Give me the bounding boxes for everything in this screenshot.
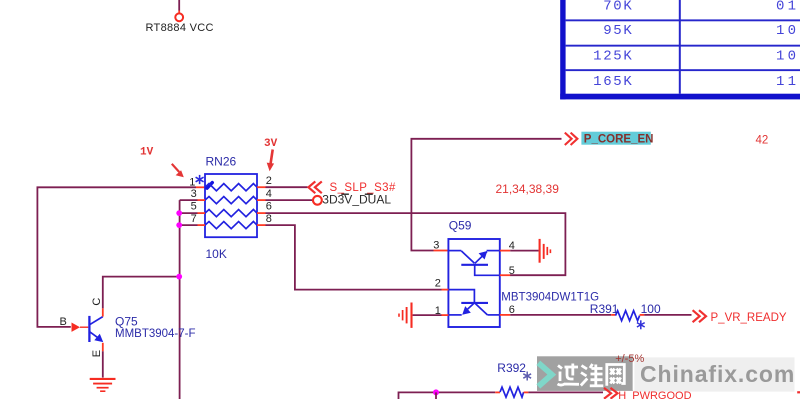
wire RN26 pin8 to Q59 pin2 bbox=[266, 225, 442, 290]
wire junction drop bbox=[435, 392, 437, 399]
RN26 element 5-6 zigzag bbox=[205, 210, 257, 217]
ground at Q59 pin4 bbox=[540, 239, 551, 263]
pin stub RN26 pin7 bbox=[198, 224, 206, 226]
resistor R392 lead right bbox=[524, 391, 529, 393]
table left thick border bbox=[560, 0, 565, 99]
ground at Q59 pin1 bbox=[399, 303, 412, 328]
svg-text:RT8884 VCC: RT8884 VCC bbox=[146, 22, 214, 34]
svg-text:42: 42 bbox=[756, 135, 769, 147]
pin stub Q59 pin4 bbox=[500, 250, 510, 252]
wire to RT8884 VCC pin bbox=[178, 0, 180, 13]
svg-text:Q75: Q75 bbox=[115, 314, 138, 328]
table row line 3 bbox=[566, 69, 800, 71]
watermark light panel bbox=[634, 357, 794, 391]
Q59 bottom emitter arrow bbox=[462, 306, 471, 315]
svg-text:1V: 1V bbox=[140, 146, 154, 158]
wire net 3D3V_DUAL bbox=[266, 199, 313, 201]
svg-text:MMBT3904-7-F: MMBT3904-7-F bbox=[115, 328, 196, 340]
svg-text:MBT3904DW1T1G: MBT3904DW1T1G bbox=[501, 292, 599, 304]
watermark glyph wei bbox=[581, 364, 604, 386]
wire Q75 collector to bus bbox=[103, 277, 179, 309]
pin stub RN26 pin6 bbox=[257, 212, 266, 214]
annotation arrow 1V bbox=[172, 164, 184, 177]
watermark glyph xun bbox=[558, 364, 580, 386]
svg-text:R391: R391 bbox=[590, 302, 619, 316]
svg-text:Chinafix.com: Chinafix.com bbox=[640, 361, 795, 387]
netport chevron S_SLP_S3# bbox=[308, 181, 321, 193]
netport chevron P_CORE_EN bbox=[565, 133, 578, 145]
svg-text:3: 3 bbox=[191, 188, 197, 200]
pin stub Q59 pin2 bbox=[442, 289, 449, 291]
svg-text:5: 5 bbox=[191, 201, 197, 213]
transistor Q75 bbox=[89, 316, 102, 342]
RN26 pin1 polarity mark bbox=[207, 183, 212, 189]
annotation arrow 3V bbox=[267, 150, 274, 172]
svg-text:100: 100 bbox=[641, 302, 661, 316]
table bottom thick border bbox=[560, 94, 800, 100]
pin stub RN26 pin8 bbox=[257, 224, 266, 226]
pin stub RN26 pin3 bbox=[198, 199, 206, 201]
RN26 element 3-4 zigzag bbox=[205, 197, 257, 204]
pin stub RN26 pin1 bbox=[196, 186, 205, 188]
svg-text:165K: 165K bbox=[593, 74, 633, 90]
junction dot collector bbox=[176, 274, 182, 280]
pin stub Q59 pin6 bbox=[500, 314, 510, 316]
pin stub RN26 pin5 bbox=[198, 212, 206, 214]
svg-text:R392: R392 bbox=[497, 361, 526, 375]
watermark separator bbox=[633, 358, 635, 391]
overbar on U bbox=[365, 194, 373, 195]
wire R391 to P_VR_READY bbox=[644, 314, 691, 316]
wire net P_CORE_EN bbox=[411, 139, 561, 251]
svg-text:21,34,38,39: 21,34,38,39 bbox=[496, 182, 560, 196]
svg-text:70K: 70K bbox=[603, 0, 633, 14]
junction dot pin5 bbox=[176, 210, 182, 216]
svg-text:2: 2 bbox=[435, 277, 441, 289]
svg-text:P_VR_READY: P_VR_READY bbox=[711, 312, 787, 324]
R391 star bbox=[637, 320, 645, 329]
resistor R392 lead left bbox=[495, 391, 500, 393]
svg-text:10: 10 bbox=[776, 23, 799, 39]
svg-text:+/-5%: +/-5% bbox=[615, 353, 644, 365]
wire bus pins 3-5-7 vertical bbox=[180, 200, 198, 399]
svg-text:3V: 3V bbox=[264, 138, 278, 150]
Q75 emitter stub bbox=[102, 343, 104, 352]
watermark logo chevron bbox=[538, 363, 552, 387]
svg-text:8: 8 bbox=[266, 213, 272, 225]
svg-text:B: B bbox=[60, 316, 67, 328]
open pin circle 3D3V_DUAL bbox=[313, 196, 322, 205]
RN26 pin1 star bbox=[196, 175, 204, 184]
resistor network RN26 body bbox=[205, 174, 257, 237]
Q59 bottom transistor bbox=[448, 290, 499, 315]
netport chevron P_VR_READY bbox=[693, 310, 706, 322]
wire Q59 pin1 to ground bbox=[413, 314, 442, 316]
svg-text:P_CORE_EN: P_CORE_EN bbox=[584, 133, 654, 145]
svg-text:10K: 10K bbox=[206, 247, 227, 261]
Q75 base arrow bbox=[72, 323, 89, 332]
svg-text:1: 1 bbox=[189, 176, 195, 188]
pin stub Q59 pin3 bbox=[434, 250, 449, 252]
Q59 top transistor bbox=[448, 251, 499, 276]
watermark dark panel bbox=[537, 356, 633, 391]
resistor R391 lead right bbox=[640, 314, 645, 316]
svg-text:10: 10 bbox=[776, 49, 799, 65]
svg-text:95K: 95K bbox=[603, 23, 633, 39]
resistor R391 lead left bbox=[611, 314, 615, 316]
overbar on V bbox=[341, 194, 349, 195]
wire RN26 pin6 to Q59 pin5 bbox=[266, 213, 566, 275]
Q75 emitter arrow bbox=[94, 334, 103, 342]
svg-text:3D3V_DUAL: 3D3V_DUAL bbox=[322, 193, 391, 207]
wire R392 to H_PWRGOOD port bbox=[528, 391, 603, 393]
table row line 1 bbox=[566, 19, 800, 21]
highlight box P_CORE_EN bbox=[581, 132, 650, 145]
table column divider bbox=[679, 0, 681, 94]
svg-text:Q59: Q59 bbox=[449, 218, 472, 232]
Q75 collector stub bbox=[102, 308, 104, 316]
svg-text:125K: 125K bbox=[593, 49, 633, 65]
pin stub RN26 pin4 bbox=[257, 199, 266, 201]
wire net H_PWRGOOD left bbox=[399, 392, 496, 399]
wire net to RN26 pin1 / Q75 base bbox=[37, 187, 196, 327]
RN26 element 7-8 zigzag bbox=[205, 222, 257, 229]
junction dot H_PWRGOOD bbox=[433, 389, 439, 395]
svg-text:01: 01 bbox=[776, 0, 799, 14]
netport chevron H_PWRGOOD bbox=[604, 388, 618, 399]
wire Q75 emitter to ground bbox=[102, 351, 104, 377]
svg-text:3: 3 bbox=[433, 239, 439, 251]
svg-text:RN26: RN26 bbox=[206, 155, 237, 169]
resistor R392 bbox=[500, 387, 524, 397]
wire net S_SLP_S3# bbox=[266, 186, 308, 188]
Q59 top emitter arrow bbox=[479, 251, 488, 260]
svg-text:11: 11 bbox=[776, 74, 799, 90]
svg-text:E: E bbox=[91, 350, 103, 357]
corner red mark bbox=[797, 391, 800, 393]
RN26 element 1-2 zigzag bbox=[205, 184, 257, 191]
svg-text:2: 2 bbox=[266, 175, 272, 187]
transistor pair Q59 body bbox=[448, 239, 499, 327]
svg-text:7: 7 bbox=[191, 213, 197, 225]
resistor R391 bbox=[616, 311, 640, 321]
wire Q59 pin6 to R391 bbox=[510, 314, 611, 316]
pin stub RN26 pin2 bbox=[257, 186, 266, 188]
ground under Q75 bbox=[90, 379, 116, 391]
pin circle RT8884 VCC bbox=[175, 13, 183, 21]
svg-text:6: 6 bbox=[266, 201, 272, 213]
table row line 2 bbox=[566, 45, 800, 47]
svg-text:4: 4 bbox=[266, 188, 272, 200]
R392 star bbox=[523, 372, 531, 381]
wire Q59 pin4 to ground bbox=[510, 250, 538, 252]
svg-text:C: C bbox=[91, 298, 103, 306]
pin stub Q59 pin1 bbox=[442, 314, 449, 316]
pin stub Q59 pin5 bbox=[500, 274, 510, 276]
watermark glyph wang bbox=[607, 365, 625, 386]
junction dot pin7 bbox=[176, 222, 182, 228]
svg-text:H_PWRGOOD: H_PWRGOOD bbox=[618, 390, 691, 399]
